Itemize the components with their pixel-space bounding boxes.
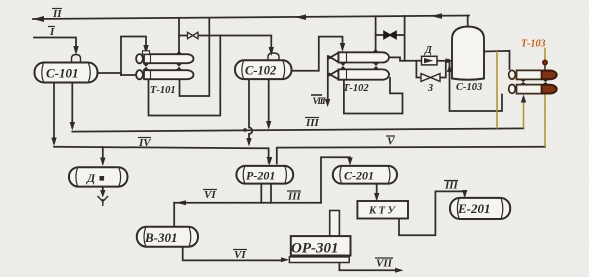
drum C-201	[333, 166, 397, 184]
svg-text:Т-103: Т-103	[521, 39, 545, 50]
svg-text:VI: VI	[234, 249, 246, 261]
svg-text:В-301: В-301	[144, 230, 178, 245]
wire yellow riser III into T-103 bottom shell	[523, 100, 525, 128]
arrow into Da drum	[100, 158, 105, 167]
wire C-101 outlet to T-101	[98, 72, 122, 74]
gate valve Z on bypass	[421, 74, 440, 82]
wire valve line T-101 to C-102	[179, 36, 271, 53]
wire C-103 outlet to T-103 top shell	[484, 51, 510, 69]
arrow C-101 drop onto III line	[70, 122, 75, 131]
svg-text:VIII: VIII	[313, 97, 327, 107]
svg-text:VII: VII	[376, 258, 393, 270]
valve on T-101 overhead line	[188, 32, 199, 38]
svg-text:Д: Д	[86, 171, 96, 185]
chevron below Da outlet	[98, 196, 109, 206]
junction node on III line	[243, 128, 247, 132]
wire KGU to E-201	[399, 191, 465, 235]
arrow Da bottom outlet	[100, 190, 105, 198]
arrow into C-102 top nozzle	[269, 47, 274, 56]
wire C-103 top nozzle riser	[467, 16, 469, 27]
box KGU	[357, 201, 408, 219]
svg-text:Д: Д	[424, 45, 433, 56]
arrow into KGU box	[374, 193, 379, 201]
wire B-301 bottom to furnace	[183, 247, 282, 261]
svg-text:КТУ: КТУ	[368, 206, 397, 217]
arrow into C-101 top nozzle	[73, 46, 78, 55]
wire C-102 bottom drop to III	[268, 79, 270, 126]
arrow into T-101 top shell	[143, 45, 148, 54]
svg-text:С-103: С-103	[456, 82, 482, 93]
wire C-102 outlet up-over to T-102	[292, 37, 343, 71]
wire II drop through valve line to T-101 top shell	[178, 18, 180, 51]
stream label II	[48, 8, 459, 270]
arrow into P-201 top	[267, 157, 273, 166]
drum B-301	[137, 227, 198, 247]
arrow up toward C-103 inlet junction	[447, 64, 452, 72]
svg-text:III: III	[305, 117, 320, 129]
svg-text:Т-102: Т-102	[343, 83, 369, 94]
arrow stream VIII end	[325, 99, 330, 107]
wire furnace outlet stream VII	[339, 263, 398, 271]
svg-text:ОР-301: ОР-301	[291, 241, 339, 257]
arrow into E-201 top	[462, 190, 467, 198]
wire P-201 bottom stubs	[261, 184, 271, 203]
arrow C-102 drop onto III line	[266, 121, 271, 130]
wire II riser x405 down to C-103 inlet line	[404, 16, 406, 61]
furnace OR-301 body	[291, 236, 351, 255]
arrow C-101 drop onto IV line	[51, 138, 56, 147]
svg-text:I: I	[49, 26, 55, 38]
wire II riser from T-101 bottom shell vapor	[180, 18, 210, 96]
check valve device D	[422, 56, 438, 65]
furnace OR-301 chimney	[330, 211, 340, 238]
furnace tube bar	[289, 257, 349, 263]
wire bottom line VI/III between B-301 and C-201	[174, 202, 321, 204]
wire yellow stub above T-103 nozzle	[544, 48, 546, 62]
wire C-201 bottom to KGU	[376, 184, 378, 199]
wire yellow drop from C-103 outlet line	[496, 51, 498, 128]
wire T-102 to device D and C-103	[389, 57, 422, 60]
wire II drop through valve line to T-102 top shell	[375, 16, 377, 51]
svg-text:С-201: С-201	[344, 169, 374, 183]
arrowheads	[33, 13, 526, 273]
arrow into C-201 top	[347, 158, 352, 166]
arrow stream II mid at x438	[431, 13, 442, 19]
svg-text:Т-101: Т-101	[150, 85, 176, 96]
svg-text:II: II	[52, 8, 62, 20]
wire T-101 bottom loop	[149, 36, 221, 116]
arrow bottom line pointing left toward B-301	[176, 200, 186, 205]
junction node at C-103 inlet	[446, 59, 450, 63]
arrow stream II left end	[33, 16, 44, 22]
wire C-102 bottom drop crossing III (hop) to V line	[249, 79, 252, 143]
arrow into C-103 inlet	[446, 58, 454, 63]
wire bypass loop with valve Z	[416, 61, 445, 78]
svg-text:IV: IV	[138, 137, 152, 149]
svg-text:Р-201: Р-201	[246, 169, 275, 183]
drum P-201	[236, 166, 293, 184]
wire yellow drop from T-103 right end to V line	[544, 94, 546, 147]
svg-text:VI: VI	[204, 189, 216, 201]
wire stream I inlet	[34, 38, 76, 52]
wire stream III long line	[72, 128, 523, 131]
arrow stream II mid at x303	[295, 14, 306, 20]
wire stream V line from T-103 to P-201	[277, 147, 545, 164]
valve on T-102 overhead line	[384, 32, 396, 39]
svg-text:С-101: С-101	[46, 66, 79, 81]
wire C-101 bottom drop to IV	[53, 83, 55, 144]
arrow C-102 drop onto V line	[246, 138, 251, 147]
arrow up into T-103 bottom shell (III)	[521, 95, 526, 103]
heat exchanger T-101	[136, 51, 193, 80]
heat exchanger T-102	[328, 49, 390, 80]
vessel C-101	[35, 55, 98, 83]
heat exchanger T-103 (hot circuit)	[509, 60, 557, 93]
svg-text:III: III	[444, 180, 459, 192]
svg-text:С-102: С-102	[245, 64, 276, 78]
vessel C-103	[452, 27, 484, 80]
svg-text:Е-201: Е-201	[457, 201, 491, 216]
yellow piping of T-103 circuit	[497, 48, 545, 147]
wire C-103 recirculation U-path to T-103 bottom shell	[450, 63, 503, 111]
wire stream II top line	[33, 16, 469, 20]
drum E-201	[450, 198, 510, 219]
wire valve line T-102	[376, 34, 405, 36]
wire Da bottom outlet	[102, 187, 104, 191]
arrow into T-102 top shell	[340, 43, 345, 52]
svg-text:З: З	[427, 83, 433, 94]
arrow stream VII end	[395, 268, 404, 273]
wire stream VIII down from T-102 head knobs	[327, 56, 329, 103]
wire branch down to drum Da	[102, 147, 104, 163]
drum Da	[69, 167, 128, 186]
wire T-102 bottom loop	[344, 77, 403, 114]
vessel C-102	[235, 53, 292, 79]
wire C-101 bottom drop to III	[71, 83, 73, 128]
wire stream IV line	[54, 147, 269, 163]
arrow VI into furnace tube	[281, 257, 289, 262]
svg-text:III: III	[287, 191, 302, 203]
